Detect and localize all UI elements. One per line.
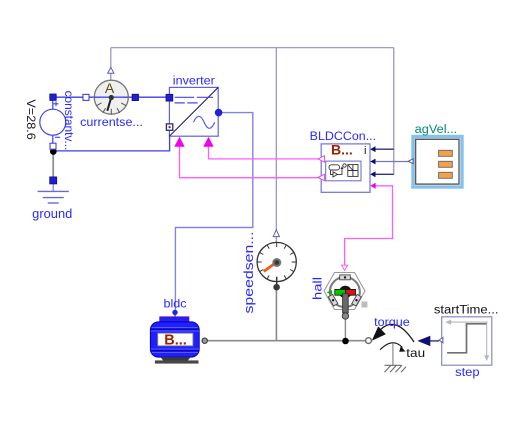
port triangle currentsensor output (108, 67, 114, 73)
wire hall flange link (344, 320, 346, 340)
port triangle agVel input (408, 159, 413, 164)
svg-text:B...: B... (164, 332, 187, 348)
display block agVel (413, 137, 462, 188)
controller BLDCCon (321, 142, 370, 193)
wire positive rail source to inverter (53, 96, 170, 98)
wire right signal drop to controller (393, 48, 395, 175)
inverter U1 (169, 87, 218, 136)
arrow navy step to torque (417, 336, 430, 346)
arrow magenta gate B into inverter (203, 137, 213, 147)
arrow input hall magenta (370, 183, 376, 189)
svg-text:B...: B... (331, 142, 353, 158)
svg-text:constantv...: constantv... (62, 91, 74, 151)
arrow input middle navy (370, 159, 375, 165)
wire gate signal A magenta (180, 146, 319, 178)
wire currentsensor output up (110, 48, 112, 68)
svg-text:startTime...: startTime... (434, 305, 499, 317)
ground G1 (38, 191, 69, 203)
wire controller input i (375, 148, 394, 150)
node speedsensor flange dot (273, 284, 280, 291)
support fixed tau (380, 343, 406, 372)
gauge speedsensor (257, 242, 296, 284)
ammeter currentsensor (94, 80, 128, 114)
wire ground stub (52, 180, 54, 191)
port triangle controller gate out lower (318, 174, 324, 180)
node square source plus (50, 94, 56, 100)
svg-text:step: step (455, 365, 480, 379)
wire inverter AC output to motor plug (175, 113, 252, 311)
wire ground pin grey (52, 152, 54, 177)
svg-text:ground: ground (32, 207, 72, 221)
port triangle controller gate out upper (318, 156, 324, 162)
node square sensor right (132, 94, 138, 100)
node inverter output plug (215, 109, 223, 117)
node hollow square sensor left (83, 94, 89, 100)
wire motor plug stem (174, 312, 176, 317)
wire speedsensor flange link (275, 290, 277, 341)
arrow input bottom navy (370, 171, 375, 177)
svg-text:bldc: bldc (164, 297, 187, 311)
svg-text:tau: tau (406, 346, 425, 360)
torque source arc (372, 324, 414, 342)
wire speedsensor triangle to gauge (275, 237, 277, 243)
svg-text:currentse...: currentse... (80, 117, 143, 129)
wire controller middle input to agVel (375, 161, 408, 163)
node hollow square inverter pin n (166, 124, 172, 130)
svg-text:inverter: inverter (173, 75, 215, 87)
svg-text:speedsen...: speedsen... (242, 232, 256, 314)
wire hall signal magenta (345, 186, 393, 265)
wire mechanical shaft (208, 340, 366, 342)
svg-text:agVel...: agVel... (415, 124, 458, 136)
arrow input i navy (370, 146, 375, 152)
svg-text:i: i (364, 145, 366, 157)
node motor plug dot (172, 310, 177, 315)
voltage source V1 constantv (40, 97, 66, 146)
wire gate signal B magenta (209, 146, 319, 159)
port triangle hall output (342, 265, 348, 270)
port triangle speedsensor output (273, 230, 279, 237)
wire step output to torque (430, 340, 440, 342)
node shaft junction at hall (342, 338, 349, 345)
wire currentsensor output stem (110, 73, 112, 81)
arrow magenta gate A into inverter (174, 137, 184, 147)
port triangle step output (439, 337, 443, 342)
wire top signal bus horizontal (111, 47, 394, 49)
svg-text:BLDCCon...: BLDCCon... (310, 131, 376, 143)
node square ground pin (50, 177, 57, 184)
node hollow square source minus (50, 143, 56, 149)
wire speedsensor output riser (275, 48, 277, 230)
svg-text:torque: torque (374, 315, 410, 329)
flange open circle (366, 338, 372, 344)
svg-text:A: A (105, 80, 115, 96)
svg-text:hall: hall (313, 277, 325, 300)
step source block (442, 317, 492, 365)
wire controller input bottom (375, 173, 394, 175)
node black junction at source minus (50, 148, 57, 155)
motor bldc (150, 317, 207, 364)
wire negative rail inverter to source minus (53, 136, 169, 151)
svg-text:V=28.6: V=28.6 (24, 99, 36, 140)
node square inverter pin p (166, 94, 173, 101)
hall sensor (324, 273, 367, 320)
